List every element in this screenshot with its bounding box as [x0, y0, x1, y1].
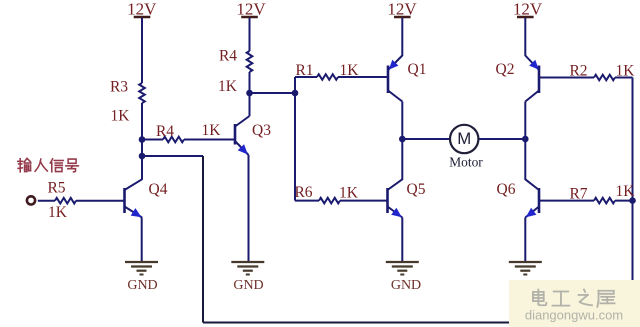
svg-text:1K: 1K	[616, 183, 636, 200]
svg-text:Q6: Q6	[497, 181, 516, 198]
svg-text:Q3: Q3	[252, 122, 271, 139]
svg-text:12V: 12V	[513, 0, 543, 18]
svg-text:1K: 1K	[339, 185, 359, 202]
svg-text:12V: 12V	[236, 0, 266, 18]
svg-text:1K: 1K	[340, 62, 360, 79]
svg-text:12V: 12V	[127, 0, 157, 18]
svg-text:R3: R3	[110, 79, 128, 96]
svg-text:1K: 1K	[111, 108, 131, 125]
svg-text:Q5: Q5	[407, 181, 426, 198]
svg-text:R7: R7	[569, 186, 587, 203]
svg-text:GND: GND	[127, 278, 157, 293]
svg-text:Q1: Q1	[408, 61, 427, 78]
svg-text:1K: 1K	[616, 63, 636, 80]
svg-text:R4: R4	[219, 48, 237, 65]
svg-text:diangongwu.com: diangongwu.com	[525, 308, 623, 323]
svg-text:R5: R5	[47, 180, 65, 197]
svg-text:R4: R4	[156, 123, 174, 140]
svg-text:Motor: Motor	[449, 154, 483, 169]
svg-text:R2: R2	[569, 63, 587, 80]
svg-text:Q4: Q4	[149, 181, 168, 198]
svg-text:Q2: Q2	[496, 61, 515, 78]
svg-text:1K: 1K	[48, 204, 68, 221]
svg-text:R1: R1	[295, 62, 313, 79]
svg-text:M: M	[457, 129, 471, 148]
svg-text:1K: 1K	[218, 78, 238, 95]
svg-text:1K: 1K	[202, 122, 222, 139]
svg-text:GND: GND	[391, 278, 421, 293]
svg-text:12V: 12V	[387, 0, 417, 18]
svg-text:GND: GND	[233, 278, 263, 293]
svg-text:R6: R6	[294, 184, 312, 201]
